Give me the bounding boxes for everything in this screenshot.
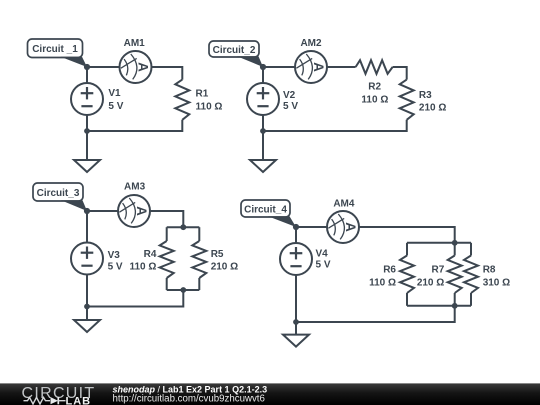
junction dot rail1 [84,128,90,134]
label R8 value [483,264,510,288]
resistor R3 [400,80,414,120]
wire node2 to AM2 [263,66,295,68]
label R6 value [369,264,396,288]
wire AM3 to parallel top [150,211,183,227]
wire parallel bottom bar c4 [407,305,471,307]
svg-text:210 Ω: 210 Ω [419,103,446,114]
label V4 value [316,249,331,271]
wire R4 top lead [166,227,168,241]
wire node1 to V1 [86,67,88,83]
wire R6 top lead [406,243,408,256]
svg-text:http://circuitlab.com/cvub9zhc: http://circuitlab.com/cvub9zhcuwvt6 [113,394,265,405]
svg-text:A: A [134,206,149,216]
node label Circuit_1 [28,39,88,67]
ground circuit4 [283,335,309,347]
wire R7 top lead [454,243,456,256]
svg-text:R1: R1 [196,89,209,100]
wire R8 bottom lead [470,293,472,306]
wire R3 to bottom rail [263,120,407,131]
junction dot top c3 [180,224,186,230]
svg-text:210 Ω: 210 Ω [211,261,238,272]
svg-text:110 Ω: 110 Ω [369,278,396,289]
label R7 value [417,264,445,288]
resistor R6 [400,256,414,294]
svg-text:V3: V3 [108,250,121,261]
label AM2 [300,38,322,49]
svg-text:Circuit_4: Circuit_4 [244,205,287,216]
wire parallel bottom bar c3 [167,289,200,291]
wire AM1 to R1 corner [152,67,183,80]
wire R1 to bottom rail [87,120,182,131]
label AM1 [124,38,146,49]
wire R5 bottom lead [198,278,200,290]
svg-text:A: A [136,62,151,72]
ammeter AM3 [118,195,150,227]
svg-text:5 V: 5 V [316,259,331,270]
svg-text:V1: V1 [108,88,121,99]
wire node1 to AM1 [87,66,120,68]
svg-text:AM1: AM1 [124,38,146,49]
label AM3 [124,182,146,193]
svg-text:R4: R4 [144,249,157,260]
svg-text:210 Ω: 210 Ω [417,278,444,289]
resistor R8 [464,256,478,294]
resistor R4 [160,241,174,278]
svg-text:R6: R6 [383,264,396,275]
voltage source V3 [71,243,103,275]
label R2 value [361,82,388,106]
svg-text:R7: R7 [432,264,445,275]
svg-text:LAB: LAB [66,395,92,405]
resistor R1 [175,80,189,120]
junction dot rail2 [260,128,266,134]
svg-text:5 V: 5 V [283,101,298,112]
wire R6 bottom lead [406,293,408,306]
label R3 value [419,90,446,114]
node dot Circuit_1 [84,64,90,70]
resistor R5 [192,241,206,278]
junction dot rail3 [84,304,90,310]
junction dot rail4 [293,319,299,325]
wire R4 bottom lead [166,278,168,290]
wire node4 to V4 [295,227,297,243]
svg-text:AM3: AM3 [124,182,146,193]
svg-text:A: A [343,222,358,232]
svg-text:AM4: AM4 [333,198,355,209]
footer bar [0,383,540,405]
svg-text:R5: R5 [211,249,224,260]
svg-text:110 Ω: 110 Ω [129,261,156,272]
ammeter AM4 [327,211,359,243]
wire V3 to ground [86,275,88,321]
node dot Circuit_3 [84,208,90,214]
label R1 value [196,89,223,113]
wire parallel to rail c4 [296,306,455,322]
svg-text:R2: R2 [368,82,381,93]
wire node3 to AM3 [87,210,118,212]
label V3 value [108,250,123,272]
ground circuit2 [250,160,276,172]
junction dot top c4 [452,240,458,246]
wire parallel top bar c4 [407,242,471,244]
wire R5 top lead [198,227,200,241]
svg-text:Circuit_3: Circuit_3 [37,188,80,199]
wire V4 to ground [295,275,297,335]
junction dot bottom c4 [452,303,458,309]
svg-text:310 Ω: 310 Ω [483,278,510,289]
svg-text:Circuit _1: Circuit _1 [32,44,78,55]
ammeter AM2 [295,51,327,83]
wire AM2 to R2 [327,66,356,68]
wire parallel top bar c3 [167,226,200,228]
svg-text:110 Ω: 110 Ω [361,94,388,105]
footer title text [113,384,268,394]
svg-text:R8: R8 [483,264,496,275]
wire V2 to ground [262,115,264,160]
svg-text:V2: V2 [283,90,296,101]
resistor R2 [356,60,393,74]
wire node4 to AM4 [296,226,327,228]
svg-text:110 Ω: 110 Ω [196,102,223,113]
wire R2 to R3 corner [393,67,407,80]
wire R7 bottom lead [454,293,456,306]
label V2 value [283,90,298,112]
node dot Circuit_4 [293,224,299,230]
svg-text:AM2: AM2 [300,38,322,49]
label V1 value [108,88,123,112]
voltage source V2 [247,83,279,115]
label R5 value [211,249,238,273]
svg-text:R3: R3 [419,90,432,101]
wire AM4 to parallel top [359,227,455,243]
wire node3 to V3 [86,211,88,243]
voltage source V4 [280,243,312,275]
label AM4 [333,198,355,209]
svg-text:5 V: 5 V [108,101,123,112]
wire node2 to V2 [262,67,264,83]
node label Circuit_3 [33,183,87,211]
label R4 value [129,249,156,273]
node dot Circuit_2 [260,64,266,70]
ground circuit1 [74,160,100,172]
svg-text:A: A [311,62,326,72]
resistor R7 [448,256,462,294]
wire parallel to rail c3 [87,290,183,307]
svg-text:Circuit_2: Circuit_2 [213,45,256,56]
svg-text:V4: V4 [316,249,329,260]
CircuitLab logo [22,385,96,405]
node label Circuit_4 [241,200,296,227]
wire V1 to ground [86,115,88,160]
voltage source V1 [71,83,103,115]
wire R8 top lead [470,243,472,256]
node label Circuit_2 [209,41,263,67]
junction dot bottom c3 [180,287,186,293]
svg-text:5 V: 5 V [108,261,123,272]
ammeter AM1 [120,51,152,83]
footer url text [113,394,265,405]
ground circuit3 [74,320,100,332]
